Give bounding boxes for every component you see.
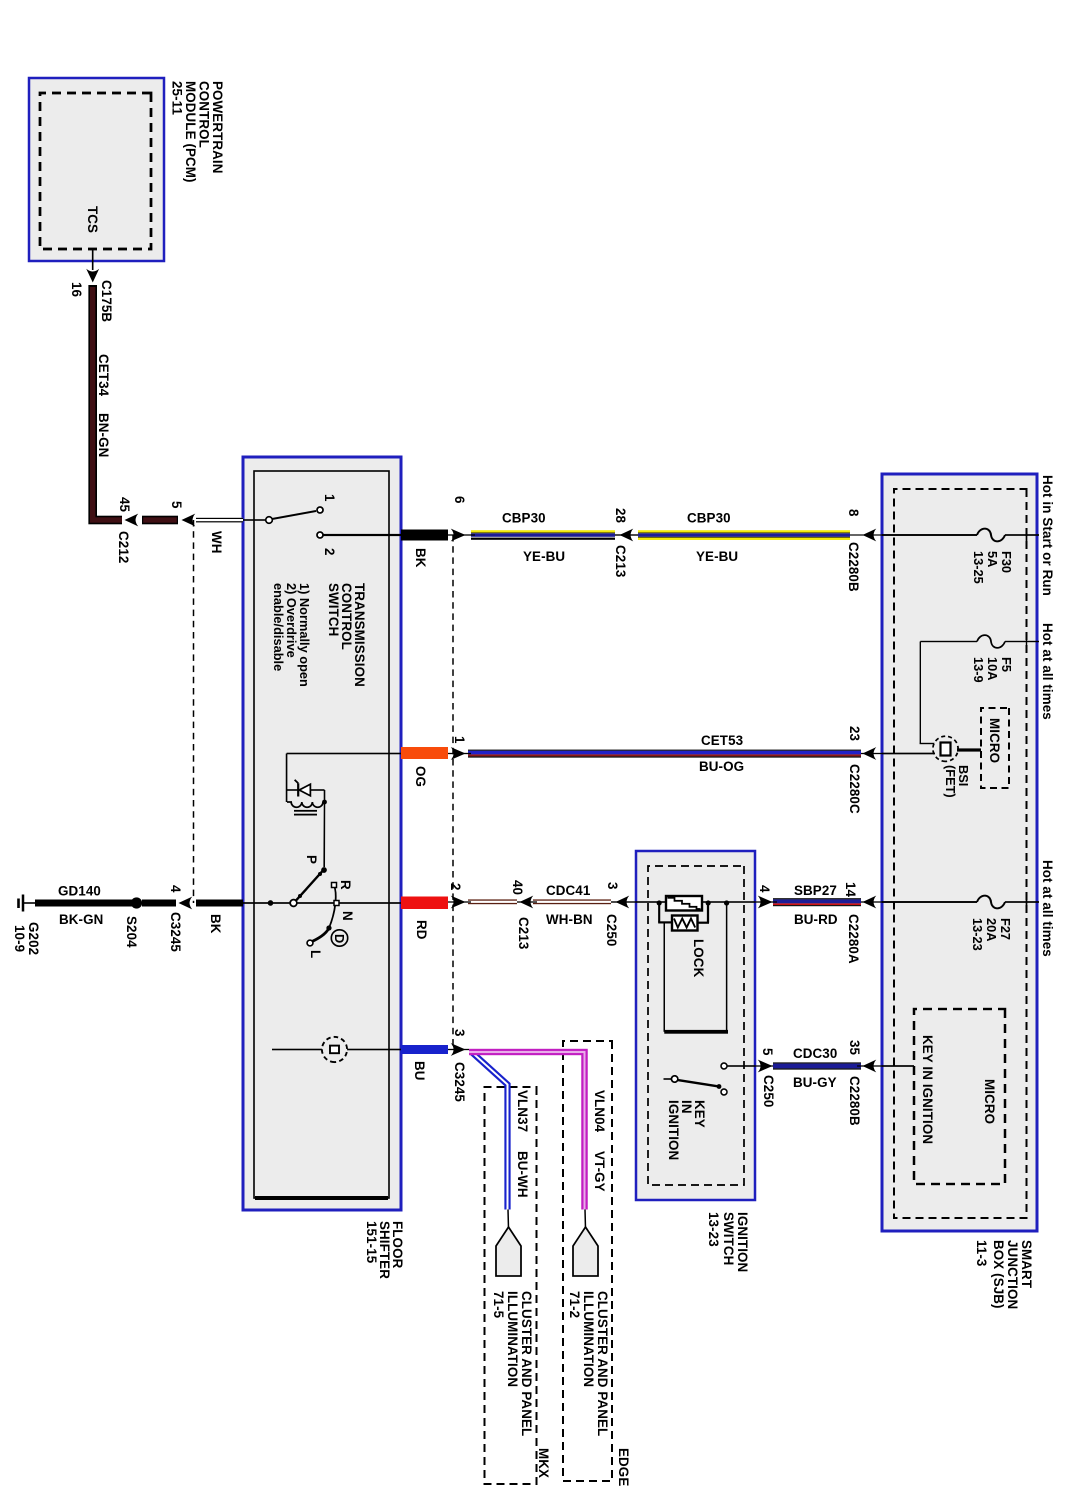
svg-text:8: 8 (846, 509, 861, 517)
svg-text:28: 28 (613, 508, 628, 524)
svg-text:P: P (304, 855, 319, 864)
svg-text:13-25: 13-25 (971, 551, 986, 584)
contact D (326, 925, 331, 930)
svg-text:14: 14 (843, 882, 858, 898)
svg-text:C250: C250 (761, 1075, 776, 1107)
svg-text:35: 35 (847, 1040, 862, 1056)
svg-text:10A: 10A (985, 657, 1000, 680)
svg-text:enable/disable: enable/disable (271, 583, 286, 671)
svg-text:BK-GN: BK-GN (59, 912, 103, 927)
wire CDC41 WH-BN lower (468, 899, 517, 904)
svg-text:WH: WH (209, 531, 224, 554)
svg-text:1: 1 (452, 736, 467, 744)
TCS switch pin2 wire (323, 534, 401, 536)
svg-text:5: 5 (760, 1048, 775, 1056)
illumination bulb (322, 1037, 347, 1062)
G202 label (12, 922, 41, 955)
svg-text:F27: F27 (998, 918, 1013, 940)
svg-text:45: 45 (117, 497, 132, 513)
svg-text:CLUSTER AND PANEL: CLUSTER AND PANEL (519, 1291, 534, 1436)
BSI label (943, 765, 971, 798)
wire CET34 BN-GN main (93, 285, 122, 520)
ignition switch internal wire lower (636, 901, 666, 903)
solenoid coil L1 (287, 800, 327, 867)
svg-text:CDC30: CDC30 (793, 1046, 837, 1061)
svg-text:Hot at all times: Hot at all times (1040, 623, 1055, 720)
contact N (334, 901, 339, 906)
svg-text:RD: RD (414, 920, 429, 940)
pin 3 arrow C3245 (451, 1043, 466, 1056)
svg-text:VT-GY: VT-GY (592, 1151, 607, 1192)
floor shifter label (364, 1221, 405, 1279)
svg-text:151-15: 151-15 (364, 1221, 379, 1264)
illumination bulb wire (272, 1049, 401, 1051)
svg-text:C3245: C3245 (168, 912, 183, 952)
svg-text:D: D (332, 934, 347, 943)
PRNDL junction dot (268, 900, 274, 906)
TCS pivot wire (243, 519, 266, 521)
svg-text:C2280B: C2280B (847, 1076, 862, 1126)
svg-text:MICRO: MICRO (987, 718, 1002, 763)
svg-text:C212: C212 (116, 531, 131, 563)
svg-text:6: 6 (452, 496, 467, 504)
pin 1 arrow (451, 747, 466, 760)
svg-text:YE-BU: YE-BU (523, 549, 565, 564)
svg-text:4: 4 (168, 885, 183, 893)
svg-text:IGNITION: IGNITION (666, 1100, 681, 1160)
ignition switch box (636, 851, 755, 1200)
svg-text:R: R (338, 880, 353, 890)
svg-text:ILLUMINATION: ILLUMINATION (505, 1291, 520, 1387)
ignition switch label (706, 1212, 750, 1272)
svg-text:10-9: 10-9 (12, 925, 27, 952)
MKX terminal connector (496, 1227, 521, 1276)
lock spring box (672, 916, 698, 931)
svg-text:BSI: BSI (956, 765, 971, 786)
svg-text:POWERTRAIN: POWERTRAIN (210, 81, 225, 174)
svg-text:VLN37: VLN37 (515, 1090, 530, 1132)
fuse F5 feed wire (920, 635, 1039, 743)
overdrive cancel wire from OG pin (287, 754, 401, 803)
svg-text:MICRO: MICRO (982, 1079, 997, 1124)
ground G202 (19, 895, 36, 912)
svg-text:IN: IN (679, 1100, 694, 1114)
svg-text:BN-GN: BN-GN (96, 413, 111, 457)
svg-text:SWITCH: SWITCH (721, 1212, 736, 1265)
transmission control switch label (326, 583, 367, 687)
EDGE terminal connector (573, 1227, 598, 1276)
svg-text:KEY IN IGNITION: KEY IN IGNITION (920, 1035, 935, 1144)
svg-text:C213: C213 (613, 545, 628, 577)
TCS switch blade (266, 511, 316, 523)
svg-text:13-23: 13-23 (970, 918, 985, 951)
svg-text:BU: BU (412, 1061, 427, 1081)
RD block pin 2 (401, 897, 448, 910)
fuse F27 feed wire (882, 896, 1039, 909)
svg-text:C175B: C175B (99, 280, 114, 322)
wire GD140 upper (142, 900, 176, 907)
PRNDL blade (296, 871, 323, 901)
svg-text:ILLUMINATION: ILLUMINATION (581, 1291, 596, 1387)
diode D1 (287, 780, 325, 802)
svg-text:(FET): (FET) (943, 765, 958, 798)
svg-text:Hot in Start or Run: Hot in Start or Run (1040, 475, 1055, 596)
svg-text:SWITCH: SWITCH (326, 583, 341, 636)
wire SBP27 BU-RD (773, 898, 861, 906)
key in ignition switch contacts (721, 1063, 755, 1095)
svg-text:3: 3 (452, 1029, 467, 1037)
svg-text:4: 4 (757, 885, 772, 893)
lock lever circuit (664, 900, 729, 1031)
svg-text:WH-BN: WH-BN (546, 912, 593, 927)
svg-text:C2280B: C2280B (846, 542, 861, 592)
svg-text:23: 23 (847, 726, 862, 741)
svg-text:LOCK: LOCK (691, 939, 706, 978)
connector C250 pin 5 arrow (758, 1060, 773, 1073)
fuse F30 feed wire (882, 529, 1039, 542)
svg-text:2: 2 (322, 548, 337, 556)
svg-text:BU-RD: BU-RD (794, 912, 838, 927)
svg-text:CONTROL: CONTROL (197, 81, 212, 148)
svg-text:5A: 5A (985, 551, 1000, 567)
connector C2280C pin 23 arrow (863, 747, 877, 760)
pin 5 arrow C212 (182, 514, 196, 527)
lock linkage wires (657, 900, 711, 922)
floor shifter box (243, 457, 401, 1210)
pin 2 arrow (451, 896, 466, 909)
svg-text:SMART: SMART (1019, 1240, 1034, 1289)
svg-text:KEY: KEY (692, 1100, 707, 1128)
connector C3245 pin 4 arrow (179, 897, 193, 910)
svg-text:C3245: C3245 (452, 1062, 467, 1102)
svg-text:VLN04: VLN04 (592, 1090, 607, 1133)
svg-text:13-9: 13-9 (971, 657, 986, 683)
connector C3245 dashed line (452, 535, 454, 1050)
KEY IN IGNITION switch label (666, 1100, 707, 1160)
wire WH white (196, 518, 243, 523)
svg-text:1: 1 (322, 494, 337, 502)
ignition switch internal wire upper (701, 901, 755, 903)
svg-text:BK: BK (208, 914, 223, 934)
svg-text:F5: F5 (999, 657, 1014, 672)
EDGE cluster illumination box (563, 1041, 612, 1481)
svg-text:TCS: TCS (85, 206, 100, 233)
svg-text:L: L (308, 950, 323, 958)
svg-text:SBP27: SBP27 (794, 883, 837, 898)
svg-text:OG: OG (413, 766, 428, 787)
wire VLN04 VT-GY (469, 1052, 586, 1229)
wire CET53 BU-OG (468, 750, 861, 758)
connector C213 pin 28 arrow (615, 529, 638, 542)
connector C2280B pin 35 arrow (863, 1060, 877, 1073)
svg-text:BK: BK (413, 548, 428, 568)
powertrain control module PCM (29, 78, 164, 261)
BU block pin 3 (401, 1045, 448, 1054)
svg-text:2) Overdrive: 2) Overdrive (284, 583, 299, 658)
PRNDL main wire (243, 902, 401, 904)
wire VLN37 BU-WH (471, 1052, 509, 1229)
svg-text:CDC41: CDC41 (546, 883, 591, 898)
svg-text:SHIFTER: SHIFTER (377, 1221, 392, 1279)
MKX cluster illumination box (485, 1087, 537, 1484)
PRNDL contact arc (312, 885, 336, 942)
D position indicator (331, 930, 347, 946)
KEY IN IGNITION micro box (914, 1009, 1005, 1184)
svg-text:MKX: MKX (536, 1448, 551, 1478)
key in ignition wire inside SJB (882, 1065, 914, 1067)
smart junction box SJB (882, 474, 1037, 1231)
BK block pin 6 (401, 530, 448, 541)
SJB label (974, 1240, 1034, 1309)
VLN04 wire label (592, 1090, 607, 1192)
splice S204 (131, 897, 142, 908)
svg-text:CBP30: CBP30 (687, 511, 731, 526)
contact L (307, 940, 313, 946)
wire CDC41 WH-BN upper (533, 899, 611, 904)
svg-text:2: 2 (448, 883, 463, 891)
connector C213 pin 40 arrow (520, 896, 534, 909)
BSI output wire to pin 23 (882, 753, 935, 755)
svg-text:GD140: GD140 (58, 884, 101, 899)
svg-text:YE-BU: YE-BU (696, 549, 738, 564)
MICRO box BSI (981, 708, 1009, 788)
BSI FET driver (933, 736, 981, 761)
svg-text:S204: S204 (124, 916, 139, 948)
svg-text:CBP30: CBP30 (502, 511, 546, 526)
svg-text:BU-OG: BU-OG (699, 759, 744, 774)
svg-text:13-23: 13-23 (706, 1212, 721, 1247)
ignition pin 4 arrow (758, 896, 773, 909)
svg-text:CET53: CET53 (701, 733, 743, 748)
svg-text:3: 3 (605, 882, 620, 890)
svg-text:71-2: 71-2 (567, 1291, 582, 1318)
svg-text:71-5: 71-5 (491, 1291, 506, 1319)
PRNDL pivot (290, 900, 297, 907)
fuse F30 label (971, 551, 1014, 584)
svg-text:MODULE (PCM): MODULE (PCM) (183, 81, 198, 183)
svg-text:CONTROL: CONTROL (339, 583, 354, 650)
svg-text:FLOOR: FLOOR (390, 1221, 405, 1269)
contact R (332, 883, 337, 888)
svg-text:5: 5 (169, 501, 184, 509)
OG block pin 1 (401, 747, 448, 759)
fuse F27 label (970, 918, 1013, 951)
svg-text:Hot at all times: Hot at all times (1040, 860, 1055, 957)
svg-text:IGNITION: IGNITION (735, 1212, 750, 1272)
svg-text:JUNCTION: JUNCTION (1005, 1240, 1020, 1309)
wire CET34 upper segment (142, 516, 178, 525)
pin 6 arrow (451, 529, 466, 542)
svg-text:G202: G202 (26, 922, 41, 955)
connector C212 dashed line (193, 520, 195, 903)
wire CDC30 BU-GY (773, 1062, 861, 1069)
switch note text (271, 583, 312, 687)
PCM pin 16 arrow (86, 249, 99, 283)
wire CBP30 upper segment YE-BU (638, 530, 882, 540)
connector C212 pin 45 arrow (125, 514, 139, 527)
svg-text:16: 16 (69, 282, 84, 297)
svg-text:C250: C250 (604, 914, 619, 946)
svg-text:C2280C: C2280C (847, 764, 862, 814)
svg-text:CET34: CET34 (96, 354, 111, 397)
svg-text:C213: C213 (516, 917, 531, 949)
VLN37 wire label (515, 1090, 530, 1198)
lock cylinder rectangle (666, 896, 702, 911)
wire GD140 BK-GN (35, 900, 132, 907)
svg-text:BU-GY: BU-GY (793, 1075, 837, 1090)
svg-text:40: 40 (510, 880, 525, 895)
svg-text:20A: 20A (984, 918, 999, 941)
contact P (321, 867, 327, 873)
svg-text:TRANSMISSION: TRANSMISSION (352, 583, 367, 687)
fuse F5 label (971, 657, 1014, 683)
svg-text:BOX (SJB): BOX (SJB) (991, 1240, 1006, 1309)
BK wire below shifter (196, 900, 243, 907)
key switch blade (664, 1076, 722, 1089)
wire CBP30 lower segment YE-BU (471, 530, 615, 540)
svg-text:N: N (340, 911, 355, 921)
connector C250 pin 3 arrow (611, 896, 636, 909)
PCM label (170, 81, 226, 183)
connector C2280A pin 14 arrow (863, 896, 877, 909)
svg-text:CLUSTER AND PANEL: CLUSTER AND PANEL (595, 1291, 610, 1436)
svg-text:C2280A: C2280A (846, 914, 861, 964)
TCS switch contacts 1 2 (317, 507, 323, 538)
svg-text:25-11: 25-11 (170, 81, 185, 115)
connector C2280B pin 8 arrow (863, 529, 877, 542)
svg-text:11-3: 11-3 (974, 1240, 989, 1266)
svg-text:F30: F30 (999, 551, 1014, 573)
svg-text:BU-WH: BU-WH (515, 1151, 530, 1198)
svg-text:EDGE: EDGE (616, 1448, 631, 1486)
svg-text:1) Normally open: 1) Normally open (297, 583, 312, 687)
